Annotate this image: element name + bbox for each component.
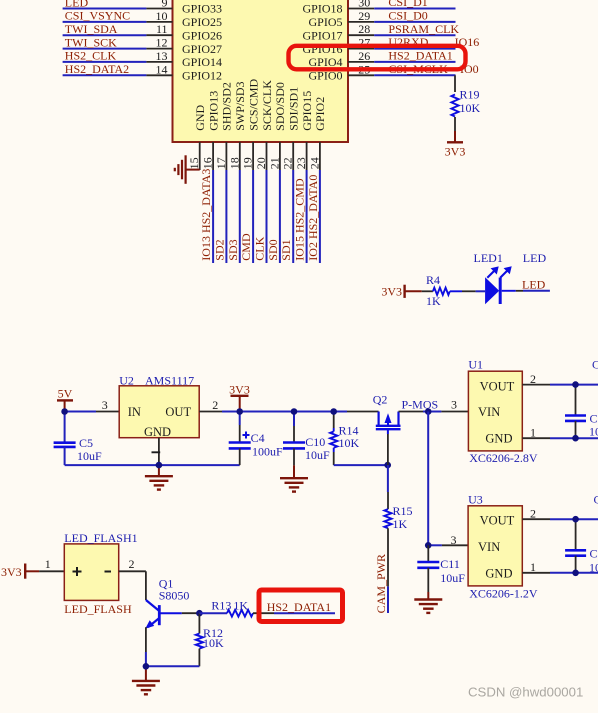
svg-text:C2: C2 [592, 358, 598, 372]
svg-text:C8: C8 [590, 547, 598, 561]
svg-text:HS2_DATA1: HS2_DATA1 [267, 600, 331, 614]
svg-text:C11: C11 [440, 557, 460, 571]
pin 3 label [102, 398, 108, 412]
pin number 22 [281, 157, 295, 169]
resistor R12 [196, 613, 224, 666]
pin number 17 [214, 157, 228, 169]
designator C (cut off) [592, 358, 598, 372]
svg-text:IO13 HS2_DATA3: IO13 HS2_DATA3 [199, 169, 213, 261]
pin number 20 [254, 157, 268, 169]
ground (Q1) [132, 666, 160, 694]
svg-text:1: 1 [530, 426, 536, 440]
junction R14/gate [384, 462, 391, 469]
LED D1 (LED1) [474, 251, 512, 304]
svg-text:GPIO5: GPIO5 [308, 15, 342, 29]
regulator U2 AMS1117 [119, 374, 199, 439]
svg-text:2: 2 [212, 398, 218, 412]
wire Q2 drain to U1 VIN [399, 411, 469, 413]
power port 3V3 (main rail) [229, 383, 250, 412]
svg-text:HS2_DATA1: HS2_DATA1 [388, 49, 452, 63]
pin name SCK/CLK [260, 80, 274, 131]
svg-text:SDO/SD0: SDO/SD0 [273, 82, 287, 131]
svg-text:IO15 HS2_CMD: IO15 HS2_CMD [293, 178, 307, 261]
svg-text:SCK/CLK: SCK/CLK [260, 80, 274, 131]
svg-text:HS2_CLK: HS2_CLK [65, 49, 117, 63]
resistor R4 [422, 273, 462, 308]
designator C (cut off, U3 row) [594, 493, 598, 507]
svg-text:3V3: 3V3 [381, 284, 402, 298]
svg-text:3V3: 3V3 [1, 565, 22, 579]
net label CAM_PWR [374, 554, 388, 613]
wire net TWI_SCK (pin 12) [63, 48, 173, 50]
svg-text:CSDN @hwd00001: CSDN @hwd00001 [468, 684, 583, 699]
wire 5V to U2 IN [65, 411, 120, 413]
pin number 21 [267, 157, 281, 169]
svg-text:GPIO13: GPIO13 [206, 91, 220, 131]
net label SD3 [226, 239, 240, 260]
svg-text:24: 24 [307, 157, 321, 169]
pin number 23 [294, 157, 308, 169]
highlight box GPIO4/HS2_DATA1 [289, 46, 466, 70]
wire net LED [502, 290, 550, 292]
pin 2 label [212, 398, 218, 412]
svg-text:GPIO15: GPIO15 [300, 91, 314, 131]
svg-text:17: 17 [214, 157, 228, 169]
net label CSI_MCLK [388, 62, 448, 76]
pin name SCS/CMD [246, 78, 260, 130]
svg-text:LED: LED [523, 251, 547, 265]
svg-text:28: 28 [358, 22, 370, 36]
svg-text:LED1: LED1 [474, 251, 503, 265]
net label TWI_SDA [65, 22, 118, 36]
svg-text:1K: 1K [393, 517, 408, 531]
svg-text:16: 16 [201, 157, 215, 169]
svg-text:1: 1 [530, 560, 536, 574]
svg-text:R15: R15 [393, 504, 413, 518]
pin name GPIO25 [182, 15, 222, 29]
svg-text:VOUT: VOUT [480, 514, 515, 528]
wire rail to U3 VIN [428, 412, 468, 546]
svg-text:12: 12 [156, 36, 168, 50]
pin number 26 [358, 49, 370, 63]
svg-text:TWI_SCK: TWI_SCK [65, 35, 117, 49]
svg-text:R13: R13 [211, 599, 231, 613]
pin name SDI/SD1 [287, 87, 301, 131]
junction 5V/C5 [61, 408, 68, 415]
pin 24 stub [319, 142, 321, 170]
svg-text:U1: U1 [468, 358, 483, 372]
wire U3 GND [522, 572, 598, 574]
pin name GPIO13 [206, 91, 220, 131]
ground (pin 15) [175, 155, 200, 184]
net label CSI_D0 [388, 9, 427, 23]
wire Q2 gate down [387, 434, 389, 492]
transistor Q2 P-MOS [373, 393, 401, 434]
pin name GPIO5 [308, 15, 342, 29]
svg-text:U3: U3 [468, 493, 483, 507]
junction C2 bottom [572, 435, 579, 442]
power port 3V3 (LED_FLASH) [1, 564, 39, 580]
svg-text:SD1: SD1 [279, 239, 293, 260]
svg-text:GPIO14: GPIO14 [182, 55, 222, 69]
regulator U1 XC6206-2.8V [468, 358, 537, 466]
net label PSRAM_CLK [388, 22, 459, 36]
pin number 9 [162, 0, 168, 10]
pin name SDO/SD0 [273, 82, 287, 131]
svg-text:GPIO17: GPIO17 [302, 28, 342, 42]
svg-text:10uF: 10uF [589, 561, 598, 575]
svg-text:CMD: CMD [239, 233, 253, 261]
svg-text:SD2: SD2 [212, 239, 226, 260]
svg-text:19: 19 [241, 157, 255, 169]
junction U2 GND rail [156, 462, 163, 469]
svg-text:3: 3 [451, 533, 457, 547]
junction C10 [291, 408, 298, 415]
pin name GPIO18 [302, 2, 342, 16]
pin name GPIO16 [302, 42, 342, 56]
wire net IO15 HS2_CMD [306, 170, 308, 263]
net label IO0 [460, 62, 479, 76]
svg-text:21: 21 [267, 157, 281, 169]
pin number 14 [156, 62, 168, 76]
svg-text:C8: C8 [594, 493, 598, 507]
svg-text:HS2_DATA2: HS2_DATA2 [65, 62, 129, 76]
wire U1 VOUT [522, 384, 598, 386]
svg-text:10uF: 10uF [589, 424, 598, 438]
bottom rail C5/U2/C4 [65, 464, 240, 466]
wire net U2RXD (pin 27) [348, 48, 456, 50]
comment P-MOS [402, 397, 439, 411]
net label CSI_D1 [388, 0, 427, 9]
svg-text:10K: 10K [339, 436, 360, 450]
svg-text:GPIO4: GPIO4 [308, 55, 342, 69]
svg-text:14: 14 [156, 62, 168, 76]
svg-text:SHD/SD2: SHD/SD2 [220, 82, 234, 131]
pin number 13 [156, 49, 168, 63]
wire net SD2 [225, 170, 227, 263]
svg-text:GPIO33: GPIO33 [182, 2, 222, 16]
pin number 27 [358, 36, 370, 50]
capacitor C10 [283, 412, 330, 463]
net label SD0 [266, 239, 280, 260]
wire net CSI_VSYNC (pin 10) [63, 21, 173, 23]
svg-text:VOUT: VOUT [480, 379, 515, 393]
net label HS2_CLK [65, 49, 117, 63]
svg-text:GND: GND [485, 431, 512, 445]
svg-text:XC6206-2.8V: XC6206-2.8V [469, 451, 538, 465]
pin name SHD/SD2 [220, 82, 234, 131]
svg-text:C5: C5 [79, 436, 93, 450]
svg-text:U2: U2 [119, 374, 134, 388]
wire net CSI_MCLK (pin 25) [348, 74, 456, 76]
svg-text:18: 18 [227, 157, 241, 169]
svg-text:P-MOS: P-MOS [402, 397, 439, 411]
net label U2RXD [388, 35, 428, 49]
wire Q1 base to R12/R13 junction [182, 612, 200, 614]
svg-text:LED_FLASH: LED_FLASH [64, 602, 132, 616]
capacitor C11 [417, 545, 465, 592]
pin 19 stub [252, 142, 254, 170]
wire net CLK [266, 170, 268, 263]
pin name GPIO17 [302, 28, 342, 42]
svg-text:3V3: 3V3 [229, 383, 250, 397]
svg-text:GPIO18: GPIO18 [302, 2, 342, 16]
svg-text:10K: 10K [203, 636, 224, 650]
power port 3V3 (LED row) [381, 284, 421, 298]
svg-text:CLK: CLK [253, 236, 267, 260]
svg-text:LED: LED [522, 277, 546, 291]
LED LED_FLASH1 [64, 531, 137, 601]
pin number 28 [358, 22, 370, 36]
junction C8 bottom [572, 570, 579, 577]
svg-text:GPIO26: GPIO26 [182, 28, 222, 42]
svg-text:TWI_SDA: TWI_SDA [65, 22, 118, 36]
svg-text:2: 2 [530, 507, 536, 521]
net label IO13 HS2_DATA3 [199, 169, 213, 261]
svg-text:3: 3 [451, 398, 457, 412]
svg-text:1: 1 [45, 557, 51, 571]
pin number 19 [241, 157, 255, 169]
svg-text:AMS1117: AMS1117 [145, 374, 194, 388]
svg-text:R4: R4 [426, 273, 440, 287]
svg-text:13: 13 [156, 49, 168, 63]
svg-text:SWP/SD3: SWP/SD3 [233, 81, 247, 130]
ground (C11) [414, 592, 442, 613]
pin name GPIO12 [182, 69, 222, 83]
pin number 24 [307, 157, 321, 169]
junction C2 top [572, 381, 579, 388]
wire net SD0 [279, 170, 281, 263]
svg-text:10uF: 10uF [305, 448, 330, 462]
pin 20 stub [266, 142, 268, 170]
resistor R13 [199, 599, 274, 617]
wire U2 OUT to 3V3 [199, 411, 347, 413]
svg-text:2: 2 [530, 372, 536, 386]
svg-text:GPIO27: GPIO27 [182, 42, 222, 56]
ground (C10) [280, 460, 308, 492]
pin 15 stub [199, 142, 201, 170]
pin name GPIO2 [313, 97, 327, 131]
pin 23 stub [306, 142, 308, 170]
svg-text:11: 11 [156, 22, 168, 36]
pin number 11 [156, 22, 168, 36]
wire net HS2_DATA1 (pin 26) [348, 61, 456, 63]
wire pin25 to R19 [454, 75, 456, 92]
wire net HS2_DATA2 (pin 14) [63, 74, 173, 76]
U2 GND pin [152, 438, 161, 465]
pin name GPIO27 [182, 42, 222, 56]
junction Q1 emitter/ground [143, 663, 150, 670]
net label HS2_DATA2 [65, 62, 129, 76]
svg-text:VIN: VIN [478, 540, 500, 554]
pin name SWP/SD3 [233, 81, 247, 130]
wire net CMD [252, 170, 254, 263]
pin name GND [193, 104, 207, 130]
pin 21 stub [279, 142, 281, 170]
comment LED_FLASH [64, 602, 132, 616]
svg-text:IO2 HS2_DATA0: IO2 HS2_DATA0 [306, 175, 320, 261]
net label CMD [239, 233, 253, 261]
wire to Q2 source [347, 411, 379, 413]
wire net SD3 [239, 170, 241, 263]
net label HS2_DATA1 [267, 600, 331, 614]
power port 5V [57, 386, 73, 411]
transistor Q1 S8050 [145, 576, 189, 628]
wire 3V3 to LED_FLASH1 pin1 [39, 570, 64, 572]
pin name GPIO14 [182, 55, 222, 69]
wire U3 VOUT [522, 518, 598, 520]
svg-text:26: 26 [358, 49, 370, 63]
svg-text:S8050: S8050 [159, 589, 190, 603]
svg-text:C4: C4 [251, 431, 265, 445]
pin 17 stub [225, 142, 227, 170]
pin 22 stub [292, 142, 294, 170]
wire net IO2 HS2_DATA0 [319, 170, 321, 263]
pin 1 label U3 [530, 560, 536, 574]
capacitor C8 [565, 519, 598, 574]
wire net HS2_DATA1 [274, 612, 335, 614]
svg-text:20: 20 [254, 157, 268, 169]
svg-text:Q2: Q2 [373, 393, 388, 407]
svg-text:VIN: VIN [478, 405, 500, 419]
capacitor C5 [54, 412, 102, 466]
svg-text:1K: 1K [233, 599, 248, 613]
wire R4 to LED1 [462, 290, 485, 292]
svg-text:SD0: SD0 [266, 239, 280, 260]
pin number 10 [156, 9, 168, 23]
svg-text:22: 22 [281, 157, 295, 169]
capacitor C4 [229, 412, 283, 466]
svg-text:LED_FLASH1: LED_FLASH1 [64, 531, 137, 545]
net label IO15 HS2_CMD [293, 178, 307, 261]
wire net TWI_SDA (pin 11) [63, 34, 173, 36]
svg-text:R19: R19 [460, 88, 480, 102]
resistor R19 [451, 88, 480, 132]
capacitor C2 [565, 385, 598, 439]
pin 2 label [129, 557, 135, 571]
ground (U2) [145, 465, 173, 490]
wire R14 bottom to gate [334, 464, 388, 466]
net label IO16 [455, 35, 480, 49]
resistor R15 [384, 492, 412, 586]
net label LED [65, 0, 89, 9]
svg-text:CAM_PWR: CAM_PWR [374, 554, 388, 613]
pin 18 stub [239, 142, 241, 170]
pin number 18 [227, 157, 241, 169]
wire LED_FLASH1 pin2 to Q1 [119, 571, 146, 600]
wire Q1 emitter down [145, 627, 147, 666]
comment LED [523, 251, 547, 265]
svg-text:3V3: 3V3 [445, 145, 466, 159]
svg-text:GPIO25: GPIO25 [182, 15, 222, 29]
junction 3V3/C4 [236, 408, 243, 415]
svg-text:PSRAM_CLK: PSRAM_CLK [388, 22, 459, 36]
svg-text:SCS/CMD: SCS/CMD [246, 78, 260, 130]
svg-text:GND: GND [144, 425, 171, 439]
net label IO2 HS2_DATA0 [306, 175, 320, 261]
svg-text:IN: IN [128, 405, 141, 419]
pin name GPIO15 [300, 91, 314, 131]
pin number 16 [201, 157, 215, 169]
svg-text:10: 10 [156, 9, 168, 23]
junction C8 top [572, 516, 579, 523]
svg-text:10uF: 10uF [77, 449, 102, 463]
pin 1 label [45, 557, 51, 571]
wire net LED (pin 9) [63, 8, 173, 10]
junction Q1 base/R12/R13 [196, 610, 203, 617]
svg-text:GND: GND [485, 566, 512, 580]
pin 3 label U3 [451, 533, 457, 547]
wire emitter rail [146, 665, 200, 667]
svg-text:23: 23 [294, 157, 308, 169]
svg-text:CSI_VSYNC: CSI_VSYNC [65, 9, 130, 23]
svg-text:OUT: OUT [165, 405, 191, 419]
pin 3 label U1 [451, 398, 457, 412]
net label CSI_VSYNC [65, 9, 130, 23]
IC U? ESP32 module body [173, 0, 349, 142]
pin number 25 [358, 62, 370, 76]
pin 16 stub [212, 142, 214, 170]
highlight box HS2_DATA1 [259, 590, 343, 622]
svg-text:GPIO12: GPIO12 [182, 69, 222, 83]
wire net IO13 HS2_DATA3 [212, 170, 214, 263]
svg-text:GND: GND [193, 104, 207, 130]
svg-text:GPIO2: GPIO2 [313, 97, 327, 131]
svg-text:CSI_D0: CSI_D0 [388, 9, 427, 23]
watermark [468, 684, 583, 699]
svg-text:29: 29 [358, 9, 370, 23]
svg-text:15: 15 [187, 157, 201, 169]
wire U1 GND [522, 437, 598, 439]
svg-text:SD3: SD3 [226, 239, 240, 260]
wire net CSI_D1 (pin 30) [348, 8, 456, 10]
resistor R14 [330, 412, 359, 466]
power port 3V3 (below R19) [445, 131, 466, 159]
junction U3 VIN/C11 [425, 542, 432, 549]
pin name GPIO0 [308, 69, 342, 83]
svg-text:SDI/SD1: SDI/SD1 [287, 87, 301, 131]
wire net HS2_CLK (pin 13) [63, 61, 173, 63]
svg-text:5V: 5V [58, 386, 73, 400]
wire net SD1 [292, 170, 294, 263]
wire net CAM_PWR [387, 586, 389, 613]
pin number 30 [358, 0, 370, 10]
junction VIN feed [425, 408, 432, 415]
pin 2 label U1 [530, 372, 536, 386]
pin 2 label U3 [530, 507, 536, 521]
pin number 12 [156, 36, 168, 50]
svg-text:100uF: 100uF [252, 445, 283, 459]
wire net PSRAM_CLK (pin 28) [348, 34, 456, 36]
net label CLK [253, 236, 267, 260]
wire net CSI_D0 (pin 29) [348, 21, 456, 23]
net label LED [522, 277, 546, 291]
svg-text:XC6206-1.2V: XC6206-1.2V [469, 586, 538, 600]
net label SD2 [212, 239, 226, 260]
junction R14 top [330, 408, 337, 415]
svg-text:1K: 1K [426, 294, 441, 308]
pin name GPIO33 [182, 2, 222, 16]
svg-text:10K: 10K [460, 101, 481, 115]
pin name GPIO26 [182, 28, 222, 42]
net label TWI_SCK [65, 35, 117, 49]
svg-text:3: 3 [102, 398, 108, 412]
svg-text:C10: C10 [305, 435, 325, 449]
svg-text:2: 2 [129, 557, 135, 571]
pin number 15 [187, 157, 201, 169]
net label HS2_DATA1 [388, 49, 452, 63]
pin name GPIO4 [308, 55, 342, 69]
